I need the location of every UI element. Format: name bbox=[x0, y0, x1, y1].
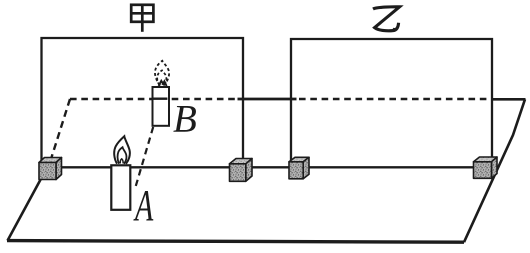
dash of back edge crossing candle B body bbox=[153, 97, 167, 99]
table back edge: dashed behind pane jia bbox=[70, 98, 238, 101]
candle A flame outer bbox=[114, 136, 130, 164]
candle A flame inner bbox=[118, 147, 127, 164]
table right edge bbox=[464, 99, 525, 242]
svg-text:B: B bbox=[173, 98, 197, 141]
candle A body bbox=[111, 165, 130, 210]
label jia (Chinese) bbox=[131, 5, 153, 32]
support cube 1 (pane jia left) bbox=[39, 158, 62, 180]
table left edge (dashed part behind glass) bbox=[51, 99, 70, 159]
table back edge: dashed behind pane yi bbox=[299, 98, 491, 101]
glass pane jia bbox=[42, 38, 244, 162]
label yi (Chinese) bbox=[373, 7, 400, 31]
candle B wick bbox=[159, 81, 164, 86]
support cube 2 (pane jia right) bbox=[230, 159, 253, 182]
support cube 4 (pane yi right) bbox=[474, 157, 498, 178]
table back edge: solid right of pane yi bbox=[491, 98, 526, 101]
candle A wick glow bbox=[120, 159, 123, 164]
dashed line from B toward A bbox=[135, 127, 153, 188]
candle B (image candle, behind pane jia) bbox=[153, 87, 170, 126]
candle B dashed flame outer bbox=[155, 61, 169, 86]
bottom rail line between supports bbox=[47, 166, 480, 168]
table back edge: solid between panes bbox=[238, 98, 297, 101]
table bottom edge bbox=[7, 241, 464, 243]
candle B dashed flame inner bbox=[157, 70, 166, 85]
table left edge (solid front part) bbox=[8, 175, 44, 241]
glass pane yi bbox=[291, 39, 492, 160]
svg-text:A: A bbox=[133, 181, 154, 230]
support cube 3 (pane yi left) bbox=[289, 157, 309, 179]
